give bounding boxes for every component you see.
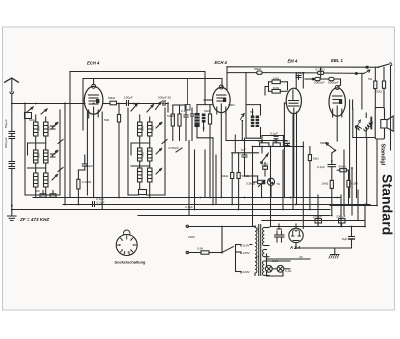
svg-text:500: 500: [141, 152, 145, 157]
resistor left low: [77, 170, 80, 204]
svg-text:EBL 1: EBL 1: [331, 58, 343, 63]
svg-text:0,1MΩ: 0,1MΩ: [82, 180, 92, 184]
band switch coil cluster A (antenna): [25, 103, 61, 195]
chassis ground: [296, 248, 352, 258]
tone caps cluster: [260, 136, 290, 147]
svg-text:ECH 4: ECH 4: [87, 61, 100, 66]
resistor right2: [382, 81, 385, 88]
tone switch: [261, 147, 268, 177]
long verticals center: [189, 141, 365, 229]
svg-text:2μF: 2μF: [241, 148, 247, 152]
IF transformer 2: [241, 73, 261, 141]
wire: top bus upper: [227, 66, 391, 70]
svg-text:MFu: MFu: [29, 118, 35, 122]
IF amp bias parts row: [171, 105, 188, 141]
field coil: [363, 113, 373, 138]
mains wires: [186, 225, 255, 254]
band switch coil cluster B2: [131, 148, 162, 168]
svg-text:500: 500: [37, 153, 41, 158]
capacitor 500pF osc: [141, 101, 168, 113]
speaker: [381, 116, 393, 131]
svg-text:5000: 5000: [262, 163, 269, 167]
volume pot 0.5M: [253, 147, 265, 227]
svg-text:8μF 500V: 8μF 500V: [342, 237, 356, 241]
svg-text:50kΩ: 50kΩ: [339, 165, 347, 169]
svg-text:500μμF: 500μμF: [4, 137, 8, 148]
wire: inner top line y78.5: [83, 78, 222, 80]
caps near rectifier: [275, 224, 285, 242]
svg-text:500: 500: [104, 118, 109, 122]
small value labels: [4, 67, 382, 274]
wire: tube1 osc grid down: [86, 112, 88, 195]
extra verticals mid-right: [284, 103, 356, 215]
small parts on bus left: [40, 191, 56, 198]
voltage selector: [222, 245, 252, 274]
switch below EBL1: [326, 143, 336, 181]
resistor right1: [374, 81, 377, 89]
svg-text:500: 500: [151, 126, 155, 131]
svg-text:50: 50: [250, 110, 254, 114]
svg-text:25: 25: [158, 121, 163, 125]
svg-text:5Ω: 5Ω: [368, 77, 373, 81]
capacitor 2uF: [242, 138, 262, 197]
svg-text:50μF: 50μF: [86, 164, 93, 168]
tube EBL1: [329, 86, 345, 118]
power transformer: [255, 225, 290, 276]
svg-text:A Z 4: A Z 4: [289, 245, 301, 250]
wire: left inner vertical x65: [64, 103, 66, 204]
capacitor 0.1uF on y204: [93, 202, 95, 207]
svg-text:100 μF: 100 μF: [313, 214, 323, 218]
svg-text:0,1μF: 0,1μF: [96, 197, 104, 201]
svg-text:1MΩ: 1MΩ: [322, 182, 329, 186]
resistor screen tube2: [208, 105, 211, 198]
resistor 50k horizontal: [337, 169, 348, 172]
svg-text:125V: 125V: [243, 251, 251, 255]
resistor vertical mid2: [347, 170, 350, 204]
resistor pair below tube2: [231, 135, 259, 210]
capacitor 50uF left low: [78, 155, 87, 170]
svg-text:5kΩ: 5kΩ: [258, 139, 264, 143]
lamp wires: [267, 269, 291, 276]
svg-text:25: 25: [54, 149, 59, 153]
wire: tube2 grid left: [204, 99, 213, 101]
wire: EM4 right pin: [296, 112, 298, 204]
wire: x83 drop: [82, 79, 84, 131]
svg-text:Sockelschaltung: Sockelschaltung: [115, 260, 147, 265]
heater line: [267, 254, 311, 266]
wire: left vertical bus: [11, 103, 13, 210]
svg-text:220: 220: [256, 227, 260, 232]
svg-text:500: 500: [47, 126, 51, 131]
resistor 50k anode: [110, 101, 127, 105]
wire: tube1 anode right: [103, 103, 110, 105]
capacitor 50pF series: [9, 132, 15, 139]
cap 8uF: [349, 227, 355, 249]
label EM4 resistors: [265, 80, 288, 95]
svg-text:50kΩ: 50kΩ: [221, 174, 229, 178]
detector line y140.5: [226, 140, 287, 142]
capacitor 100pF EM4: [296, 73, 303, 88]
fuse: [201, 251, 209, 254]
svg-text:0,5M: 0,5M: [351, 182, 358, 186]
wire: tube1 top cap lead: [93, 79, 95, 85]
svg-text:0,1μF: 0,1μF: [97, 201, 105, 205]
wire: EBL1 top cap lead: [338, 85, 341, 87]
svg-text:0,1μF: 0,1μF: [185, 205, 193, 209]
grid cap box: [185, 105, 190, 111]
bottom buses: [12, 198, 370, 216]
band switch coil cluster A3: [25, 173, 60, 198]
ground: [8, 205, 17, 221]
pilot lamp 1: [265, 265, 272, 272]
speaker assembly box: [350, 100, 375, 198]
svg-text:100pF: 100pF: [296, 71, 305, 75]
svg-text:200 μF: 200 μF: [336, 214, 346, 218]
svg-text:6,3V: 6,3V: [272, 259, 279, 263]
svg-text:220V: 220V: [188, 235, 196, 239]
wire: tube1 cathode down: [93, 114, 95, 197]
tube ECH4 no.1: [84, 84, 103, 118]
svg-text:50Ω: 50Ω: [376, 90, 382, 94]
svg-text:50Ω: 50Ω: [272, 139, 278, 143]
resistor 1M vertical: [117, 104, 120, 198]
text labels: [87, 58, 343, 66]
capacitor 500uuF series: [9, 162, 15, 169]
svg-text:1MΩ: 1MΩ: [228, 103, 235, 107]
svg-text:Standard: Standard: [380, 174, 395, 235]
svg-text:50kΩ: 50kΩ: [254, 67, 262, 71]
svg-text:25: 25: [54, 121, 59, 125]
wire: top box line y72: [70, 71, 205, 73]
svg-text:25kΩ: 25kΩ: [283, 139, 291, 143]
svg-text:0,1: 0,1: [181, 109, 186, 113]
hum coil diagonal: [355, 120, 361, 138]
3x50pF gang label arrow: [176, 148, 182, 152]
svg-text:0,3A: 0,3A: [285, 269, 292, 273]
svg-text:50kΩ: 50kΩ: [108, 96, 116, 100]
svg-text:1MΩ: 1MΩ: [273, 76, 280, 80]
wire: EM4 left pin: [284, 102, 286, 104]
wire: tube2 top cap lead: [221, 79, 223, 88]
socket diagram: [116, 230, 137, 256]
svg-text:EM 4: EM 4: [288, 59, 298, 64]
capacitor 100pF coupling: [127, 101, 142, 106]
resistor 5k vertical: [308, 147, 311, 210]
wire: box left vertical x70: [69, 72, 71, 103]
svg-text:Standigl: Standigl: [380, 144, 386, 166]
svg-text:5000pF: 5000pF: [328, 81, 339, 85]
svg-text:0,1MΩ: 0,1MΩ: [316, 67, 326, 71]
svg-text:ZF = 473 KHZ: ZF = 473 KHZ: [19, 217, 49, 222]
svg-text:0,5A: 0,5A: [197, 247, 204, 251]
svg-text:DF: DF: [36, 189, 40, 193]
wire: EM4 down: [293, 114, 295, 198]
svg-text:5kΩ: 5kΩ: [204, 109, 210, 113]
svg-text:100pF: 100pF: [124, 96, 133, 100]
tube EM4: [286, 73, 301, 114]
wire: right side verticals: [330, 67, 391, 205]
wire: main grid line y103: [11, 103, 85, 105]
resistor 0.1M below bus: [318, 67, 324, 74]
svg-text:0,5MΩ: 0,5MΩ: [246, 182, 256, 186]
svg-text:1MΩ: 1MΩ: [273, 86, 280, 90]
IF transformer 1: [191, 72, 214, 204]
wire: tube2 anode up: [226, 67, 228, 90]
resistor on lower bus: [257, 71, 263, 74]
band switch coil cluster A2: [28, 150, 58, 173]
antenna: [5, 78, 19, 103]
svg-text:50kΩ: 50kΩ: [242, 174, 250, 178]
output transformer frame: [375, 108, 384, 140]
pilot lamp 2: [277, 265, 284, 272]
svg-text:5kΩ: 5kΩ: [313, 157, 319, 161]
svg-text:3×50pF: 3×50pF: [168, 146, 180, 150]
svg-text:220V: 220V: [243, 270, 251, 274]
svg-text:5000pF: 5000pF: [314, 81, 325, 85]
band switch coil cluster B (oscillator): [128, 102, 165, 195]
core bar: [370, 118, 372, 129]
svg-text:0,1μF: 0,1μF: [270, 131, 278, 135]
bottom b+ right vertical: [364, 211, 366, 227]
svg-text:500: 500: [141, 126, 145, 131]
svg-text:0,1μF: 0,1μF: [317, 165, 325, 169]
wire: tube2 cathode down: [220, 113, 222, 198]
svg-text:110V: 110V: [243, 244, 251, 248]
svg-text:500: 500: [37, 126, 41, 131]
svg-text:50μμF: 50μμF: [4, 119, 8, 128]
svg-text:ECH 4: ECH 4: [215, 60, 228, 65]
cap labels on y220: [262, 220, 365, 222]
B+ line with electrolytics: [271, 219, 366, 227]
capacitors 5000pF pair: [305, 75, 341, 86]
wire: top bus lower: [227, 72, 364, 75]
band switch coil cluster B3: [128, 168, 165, 198]
mains switch top right: [355, 63, 392, 75]
rectifier AZ4: [289, 224, 303, 248]
svg-text:500pF 50: 500pF 50: [158, 96, 171, 100]
tuning gang caps: [58, 140, 167, 172]
svg-text:50kΩ: 50kΩ: [167, 114, 175, 118]
wire: EBL1 cathode down: [336, 116, 338, 141]
wire y146.5: [253, 146, 304, 148]
pickup jack: [267, 178, 274, 197]
svg-text:50kΩ: 50kΩ: [320, 141, 328, 145]
tube ECH4 no.2: [213, 85, 231, 114]
resistor vertical mid: [330, 180, 333, 215]
